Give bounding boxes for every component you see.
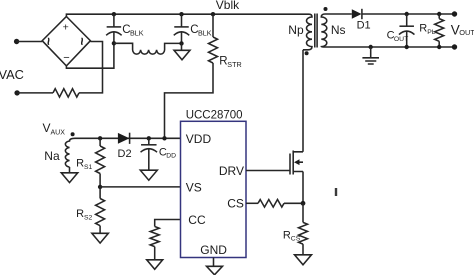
capacitor CBLK1 xyxy=(106,14,144,43)
svg-text:~: ~ xyxy=(74,37,90,45)
svg-text:Ns: Ns xyxy=(331,23,346,37)
svg-text:R: R xyxy=(76,158,84,170)
svg-text:Np: Np xyxy=(288,23,304,37)
svg-text:OUT: OUT xyxy=(394,36,408,43)
svg-text:OUT: OUT xyxy=(459,28,474,37)
wire to CS node xyxy=(284,202,303,204)
svg-text:D2: D2 xyxy=(118,148,132,160)
resistor RCS xyxy=(283,203,312,264)
resistor RF (input fusible) xyxy=(53,89,79,97)
node VOUT+ xyxy=(452,11,457,16)
svg-text:Vblk: Vblk xyxy=(216,0,240,12)
transformer secondary Ns xyxy=(321,14,327,47)
svg-text:−: − xyxy=(63,52,69,64)
node RS1 top xyxy=(98,136,102,140)
svg-text:CS: CS xyxy=(227,197,244,211)
bridge rectifier xyxy=(41,17,90,66)
wire VS line xyxy=(100,186,180,188)
svg-text:VAC: VAC xyxy=(0,67,24,82)
svg-text:STR: STR xyxy=(227,60,241,69)
wire Vblk rail xyxy=(66,14,309,16)
wire drain to primary xyxy=(302,50,304,152)
svg-text:BLK: BLK xyxy=(198,29,212,38)
wire secondary bottom rail xyxy=(325,46,455,48)
svg-text:R: R xyxy=(76,208,84,220)
svg-text:UCC28700: UCC28700 xyxy=(186,109,243,121)
node B xyxy=(179,41,183,45)
svg-text:DD: DD xyxy=(166,153,176,160)
node VOUT- xyxy=(452,44,457,49)
capacitor CBLK2 xyxy=(174,14,212,43)
capacitor COUT xyxy=(387,12,415,49)
svg-text:PL: PL xyxy=(427,29,436,36)
resistor Rcs-filter (CS series) xyxy=(258,200,284,208)
resistor RS2 xyxy=(76,187,108,243)
earth ground secondary xyxy=(362,45,379,64)
op-amp U1 UCC28700 box xyxy=(181,121,247,257)
polarity dot primary xyxy=(305,51,309,55)
svg-text:AUX: AUX xyxy=(51,129,66,136)
svg-text:V: V xyxy=(43,121,51,135)
polarity dot secondary xyxy=(324,7,328,11)
transformer core xyxy=(315,14,317,48)
wire CS line xyxy=(246,202,258,204)
svg-text:+: + xyxy=(63,22,69,34)
svg-text:R: R xyxy=(419,23,427,35)
svg-text:CS: CS xyxy=(291,236,301,243)
resistor RPL xyxy=(419,12,443,49)
wire output top rail xyxy=(362,13,455,15)
diode D1 xyxy=(352,9,371,32)
node VS xyxy=(98,185,102,189)
wire source down xyxy=(302,172,304,204)
wire DRV to gate xyxy=(246,170,290,172)
ground at GND pin xyxy=(207,258,223,275)
resistor RCC xyxy=(147,227,163,270)
transistor Q1 MOSFET xyxy=(290,151,303,175)
svg-text:Na: Na xyxy=(44,149,60,163)
inductor LF (filter choke) xyxy=(114,43,182,54)
ground at node B xyxy=(174,43,190,59)
node rail-CBLK1 xyxy=(112,12,116,16)
svg-text:S1: S1 xyxy=(84,164,93,171)
svg-text:R: R xyxy=(283,229,291,241)
transformer primary Np xyxy=(303,14,312,50)
resistor RSTR xyxy=(165,14,242,138)
svg-text:VS: VS xyxy=(186,180,202,194)
wire VAC top terminal to bridge xyxy=(14,39,42,44)
svg-text:GND: GND xyxy=(200,243,227,257)
svg-text:DRV: DRV xyxy=(219,164,244,178)
svg-text:CC: CC xyxy=(188,213,206,227)
svg-text:BLK: BLK xyxy=(130,29,144,38)
node rail-CBLK2 xyxy=(179,12,183,16)
label I xyxy=(335,188,337,196)
wire VDD line xyxy=(75,137,181,139)
node VDD-RSTR xyxy=(162,136,166,140)
wire bridge negative to node A xyxy=(66,43,114,68)
svg-text:~: ~ xyxy=(41,37,57,45)
wire CC line xyxy=(155,220,181,227)
diode D2 xyxy=(118,133,132,160)
node A xyxy=(112,41,116,45)
svg-text:D1: D1 xyxy=(357,20,371,32)
ground below Na xyxy=(61,167,78,183)
node rail-RSTR xyxy=(211,12,215,16)
node CS xyxy=(301,201,306,206)
wire secondary top to D1 xyxy=(325,13,352,15)
transformer aux winding Na xyxy=(65,138,75,167)
polarity dot aux xyxy=(71,132,75,136)
svg-text:VDD: VDD xyxy=(186,132,212,146)
svg-text:S2: S2 xyxy=(84,215,93,222)
wire VAC bottom terminal xyxy=(14,90,53,95)
wire RF to bridge AC2 xyxy=(79,42,103,93)
resistor RS1 xyxy=(76,138,105,187)
capacitor CDD xyxy=(140,136,176,180)
